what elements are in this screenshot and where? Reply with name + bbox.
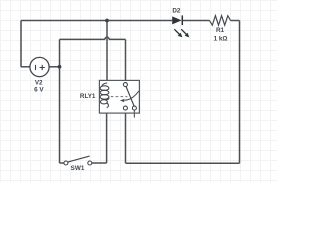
wire coil top pin (106, 21, 108, 84)
svg-text:D2: D2 (172, 7, 181, 14)
svg-text:SW1: SW1 (71, 165, 85, 172)
wire coil bottom pin down (106, 108, 108, 163)
relay dashed actuation link (111, 96, 128, 98)
relay switch arm (126, 87, 134, 107)
LED D2 cathode bar (181, 15, 183, 25)
svg-text:V2: V2 (35, 79, 43, 86)
wire up to relay throw pin (125, 110, 127, 163)
wire into source left terminal (21, 66, 30, 68)
switch SW1 blade (68, 156, 90, 162)
relay curved arrow (125, 91, 139, 100)
relay coil (100, 83, 109, 108)
wire bottom of right loop (126, 162, 240, 164)
LED D2 triangle (172, 16, 181, 24)
wire relay common pin drop (125, 39, 127, 82)
wire mid horizontal with hop over coil wire (60, 37, 126, 39)
relay RLY1 box (99, 80, 139, 113)
wire top rail between LED and R1 (182, 20, 209, 22)
switch SW1 left terminal circle (64, 161, 68, 165)
svg-text:1 kΩ: 1 kΩ (214, 35, 228, 42)
wire right side vertical (239, 21, 241, 164)
relay right throw stub (133, 110, 135, 117)
svg-text:6 V: 6 V (34, 86, 44, 93)
voltage source V2 circle (30, 57, 49, 76)
switch SW1 right terminal circle (88, 161, 92, 165)
V2 minus bar (35, 65, 37, 70)
wire junction down to SW1 left (59, 67, 61, 163)
relay throw pin circle left (123, 106, 127, 110)
LED arrow 2 (181, 29, 189, 37)
resistor R1 zigzag (210, 16, 231, 26)
junction dot on top rail at coil pin (105, 19, 109, 23)
wire SW1 left terminal (60, 162, 64, 164)
wire SW1 right terminal to coil bottom (92, 162, 107, 164)
svg-text:RLY1: RLY1 (80, 93, 96, 100)
wire junction up to mid horizontal (59, 39, 61, 66)
relay common pin circle (123, 83, 127, 87)
wire top rail left segment (21, 20, 172, 22)
LED arrow 1 (174, 29, 182, 37)
wire left drop from top rail (20, 21, 22, 67)
junction dot at source/switch node (58, 65, 62, 69)
wire source right terminal to junction (49, 66, 60, 68)
relay throw pin circle right (132, 106, 136, 110)
svg-text:R1: R1 (216, 27, 225, 34)
wire top rail right of R1 (231, 20, 240, 22)
V2 plus sign (40, 65, 45, 70)
